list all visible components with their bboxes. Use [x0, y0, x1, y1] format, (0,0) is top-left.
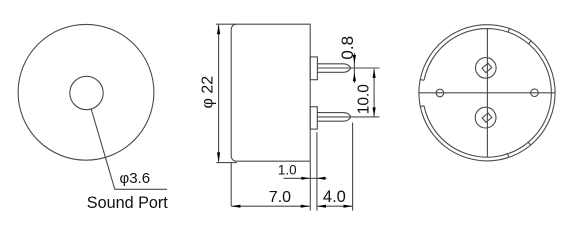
- svg-text:4.0: 4.0: [323, 188, 346, 206]
- dimension line 4.0: [317, 205, 353, 207]
- svg-text:0.8: 0.8: [338, 36, 357, 60]
- bottom pin outline: [317, 113, 350, 122]
- dimension line 10.0: [373, 69, 375, 117]
- top pin cross-section rect: [482, 63, 492, 72]
- arrow phi22 top: [217, 24, 220, 34]
- dimension line 1.0: [284, 177, 327, 179]
- extension line step right edge: [316, 132, 318, 210]
- bottom view outer circle: [419, 25, 555, 161]
- arrow phi22 bottom: [217, 152, 220, 162]
- right small hole: [531, 89, 539, 97]
- arrow 1.0 pointing left: [317, 177, 326, 180]
- arrow 0.8 down: [353, 55, 356, 64]
- bottom extension line phi22: [216, 162, 237, 164]
- svg-text:Sound Port: Sound Port: [87, 194, 168, 212]
- tick 4 o'clock: [528, 142, 531, 145]
- vertical center line: [486, 29, 488, 157]
- arrow 10.0 down: [373, 107, 376, 116]
- tick 5 o'clock: [507, 153, 508, 157]
- arrow 4.0 left: [317, 205, 326, 208]
- front view outer circle: [18, 24, 154, 160]
- side view body outline: [231, 24, 310, 161]
- tick lower-left: [420, 105, 424, 108]
- horizontal center line: [419, 92, 556, 94]
- svg-text:7.0: 7.0: [269, 189, 291, 206]
- extension line pin tip: [352, 123, 354, 211]
- svg-text:1.0: 1.0: [278, 162, 297, 177]
- tick 2 o'clock: [529, 40, 532, 43]
- svg-text:φ3.6: φ3.6: [120, 170, 151, 187]
- arrow 1.0 pointing right: [301, 177, 310, 180]
- top pin hole circle: [476, 58, 497, 79]
- sound port hole circle: [70, 76, 103, 109]
- arrow 7.0 left: [231, 205, 240, 208]
- arrow 10.0 up: [373, 69, 376, 78]
- bottom pin cross-section rect: [482, 113, 492, 122]
- bottom step block: [310, 107, 317, 129]
- left small hole: [436, 89, 444, 97]
- arrow 0.8 up: [353, 73, 356, 82]
- top step block: [310, 57, 317, 80]
- extension line body right edge: [309, 162, 311, 211]
- tick 1 o'clock: [508, 28, 509, 32]
- top pin center line / extension: [317, 67, 379, 69]
- bottom view inner circle with gap at left: [424, 29, 551, 158]
- top pin outline: [317, 64, 350, 73]
- bottom pin hole circle: [475, 107, 496, 128]
- dimension line 7.0: [231, 205, 309, 207]
- svg-text:φ 22: φ 22: [200, 76, 217, 109]
- bottom pin center line / extension: [317, 116, 379, 118]
- dimension line phi22: [218, 25, 220, 162]
- top extension line phi22: [216, 23, 237, 25]
- tick upper-left: [420, 79, 424, 82]
- dimension line 0.8: [353, 53, 355, 83]
- extension line body left edge: [230, 162, 232, 206]
- arrow 7.0 right: [301, 205, 310, 208]
- leader line sound port: [91, 109, 167, 189]
- arrow 4.0 right: [344, 205, 353, 208]
- svg-text:10.0: 10.0: [356, 84, 373, 115]
